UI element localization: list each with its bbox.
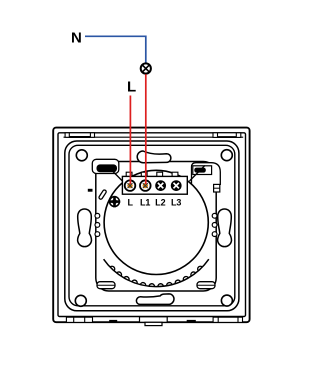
svg-text:L1: L1 — [140, 198, 151, 208]
svg-text:L3: L3 — [171, 198, 182, 208]
svg-text:N: N — [71, 30, 82, 47]
svg-text:L: L — [127, 79, 136, 96]
svg-text:L: L — [128, 198, 134, 208]
svg-text:L2: L2 — [155, 198, 166, 208]
